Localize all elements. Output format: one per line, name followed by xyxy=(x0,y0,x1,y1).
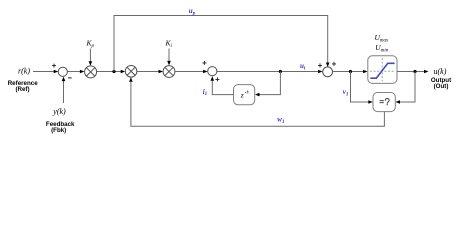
label Output xyxy=(431,77,451,84)
multiplier M2 (anti-windup gate) xyxy=(125,66,137,78)
label ui xyxy=(300,62,306,71)
wire M3 to summer S2 xyxy=(175,70,208,74)
summer S2 (integrator accumulate) xyxy=(208,67,217,76)
svg-text:z: z xyxy=(240,91,244,100)
node junction dot up branch xyxy=(112,70,115,73)
wire M1 to multiplier M2 xyxy=(97,70,126,74)
label Feedback xyxy=(46,121,75,128)
wire junction to delay block xyxy=(255,72,280,97)
label Umin xyxy=(375,43,388,54)
wire Ki to multiplier M3 xyxy=(167,49,171,66)
comparator block (=?) xyxy=(373,93,395,112)
label (Out) xyxy=(434,83,449,90)
wire Kp to multiplier M1 xyxy=(89,49,93,66)
node minus sign at S1 bottom input xyxy=(68,77,72,79)
label up xyxy=(189,7,196,16)
summer S1 xyxy=(58,67,67,76)
label Kp xyxy=(86,39,95,49)
wire S1 to multiplier M1 xyxy=(67,70,84,74)
node junction dot output feedback xyxy=(413,70,416,73)
multiplier M1 (Kp gain) xyxy=(85,66,97,78)
svg-text:(Fbk): (Fbk) xyxy=(51,127,66,134)
label r(k) xyxy=(18,67,30,76)
node junction dot v1 branch xyxy=(349,70,352,73)
wire saturation to output xyxy=(397,70,429,74)
delay block z^-1 xyxy=(234,85,255,105)
wire y(k) to summer S1 xyxy=(62,77,66,103)
wire output branch to comparator xyxy=(396,72,416,104)
svg-text:u(k): u(k) xyxy=(434,67,447,76)
wire w1 loop comparator to M2 xyxy=(129,77,384,126)
wire S2 to summer S3 xyxy=(217,70,323,74)
wire r(k) to summer S1 xyxy=(33,70,58,74)
label u(k) xyxy=(434,67,447,76)
svg-text:(Out): (Out) xyxy=(434,83,449,90)
label (Ref) xyxy=(15,86,29,93)
svg-text:r(k): r(k) xyxy=(18,67,30,76)
wire M2 to multiplier M3 xyxy=(137,70,163,74)
node plus sign at S2 bottom input xyxy=(215,77,219,81)
wire S3 to saturation block xyxy=(333,70,368,74)
wire up branch (to top line and down into summer S3) xyxy=(114,16,330,72)
summer S3 (up + ui) xyxy=(323,67,333,77)
wire v1 branch to comparator xyxy=(351,72,373,104)
saturation block U1 xyxy=(368,56,397,84)
label Ki xyxy=(165,39,173,49)
label w1 xyxy=(277,116,285,125)
wire delay block to S2 bottom xyxy=(211,76,234,94)
node plus sign at S3 left input xyxy=(318,63,322,67)
label y(k) xyxy=(52,107,66,116)
node junction dot integrator feedback xyxy=(279,70,282,73)
svg-text:(Ref): (Ref) xyxy=(15,86,29,93)
label Umax xyxy=(375,33,390,44)
label Reference xyxy=(8,80,38,87)
node plus sign at S2 left input xyxy=(202,61,206,65)
label i1 xyxy=(203,88,208,97)
node plus sign at S1 left input xyxy=(52,64,56,68)
label v1 xyxy=(343,88,349,97)
multiplier M3 (Ki gain) xyxy=(163,66,175,78)
node plus sign at S3 top input xyxy=(332,62,336,66)
label (Fbk) xyxy=(51,127,66,134)
svg-text:y(k): y(k) xyxy=(52,107,66,116)
